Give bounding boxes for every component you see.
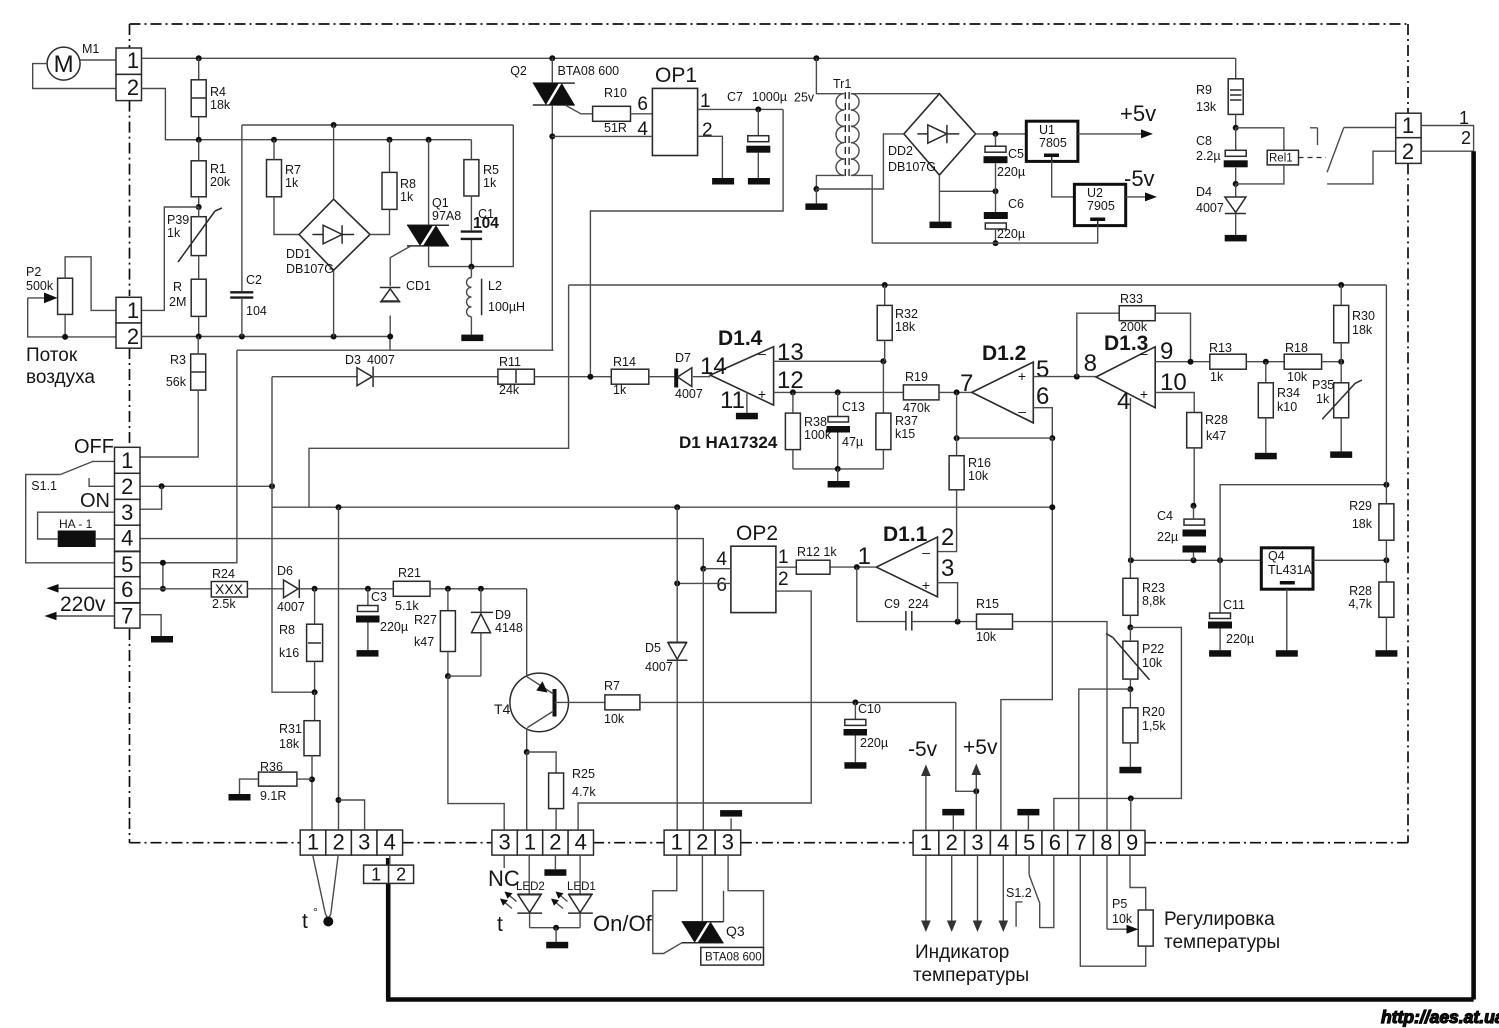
svg-text:D1.4: D1.4	[718, 327, 763, 350]
svg-text:4007: 4007	[675, 387, 703, 401]
wire DD1 top to y125	[333, 125, 335, 199]
svg-text:10k: 10k	[968, 469, 989, 483]
triac Q2 BTA08-600	[551, 58, 553, 83]
svg-text:P5: P5	[1112, 897, 1127, 911]
capacitor C3 220u	[367, 589, 369, 606]
svg-text:C6: C6	[1008, 197, 1024, 211]
svg-text:18k: 18k	[1352, 517, 1373, 531]
gate wire Q2 to R10	[565, 105, 593, 114]
junction T4 emitter / R25	[524, 749, 530, 755]
junction pin8 node	[1074, 374, 1080, 380]
junction R38 top	[790, 389, 796, 395]
junction R8 top	[387, 137, 393, 143]
svg-text:4: 4	[384, 830, 396, 855]
svg-text:R34: R34	[1277, 386, 1300, 400]
svg-text:7: 7	[1074, 830, 1086, 855]
capacitor C6 220u	[995, 191, 997, 212]
voltage reference Q4 TL431A	[1261, 548, 1313, 589]
svg-text:R28: R28	[1205, 413, 1228, 427]
diode D3 4007	[272, 376, 357, 378]
svg-text:4: 4	[575, 830, 587, 855]
svg-text:D1.2: D1.2	[982, 342, 1026, 365]
svg-text:S1.1: S1.1	[31, 479, 57, 493]
thick cable right side down	[1471, 151, 1476, 999]
frame dash-dot border bottom segments	[130, 842, 301, 844]
thermistor probe t	[313, 855, 326, 914]
wire pin12 node	[774, 391, 904, 393]
svg-text:R3: R3	[170, 353, 186, 367]
svg-text:1: 1	[1402, 113, 1414, 138]
svg-text:k10: k10	[1277, 400, 1297, 414]
wire D7 to D1.4	[693, 376, 710, 378]
svg-text:14: 14	[700, 353, 727, 380]
resistor R7 10k	[605, 695, 640, 710]
svg-text:LED2: LED2	[516, 881, 545, 893]
svg-text:2: 2	[946, 830, 958, 855]
optocoupler OP2	[731, 546, 776, 612]
svg-text:OP1: OP1	[655, 64, 697, 87]
svg-text:Q2: Q2	[510, 64, 527, 78]
svg-text:–: –	[922, 544, 930, 560]
svg-text:56k: 56k	[166, 375, 187, 389]
svg-text:4: 4	[121, 526, 133, 551]
wire R19 node down to R16	[956, 392, 958, 455]
wire R11 to R14	[534, 376, 611, 378]
capacitor C4 22u	[1184, 519, 1205, 525]
wire M1 loop to X1 pin2	[33, 64, 116, 89]
junction R27 top	[445, 586, 451, 592]
svg-text:7: 7	[121, 604, 133, 629]
bridge rows 5-6	[162, 563, 164, 589]
resistor R27 k47	[447, 589, 449, 611]
wire row1 to R3	[139, 460, 141, 462]
svg-text:10k: 10k	[976, 630, 997, 644]
wire R3 bottom to row1	[140, 390, 198, 457]
svg-text:1: 1	[121, 448, 133, 473]
arrow -5v from pin1	[925, 771, 927, 831]
svg-text:k16: k16	[279, 646, 299, 660]
wire to R25	[527, 752, 556, 773]
wire jog to pin3	[339, 800, 365, 830]
wire long vertical from feedback node down	[1001, 438, 1052, 830]
frame dash-dot border left segments	[129, 24, 131, 48]
thick cable up to mini connector	[386, 858, 391, 1000]
svg-text:R32: R32	[895, 307, 918, 321]
svg-text:220µ: 220µ	[380, 620, 408, 634]
ground below C10	[844, 762, 866, 769]
svg-text:R19: R19	[905, 370, 928, 384]
svg-text:R15: R15	[976, 597, 999, 611]
svg-text:2: 2	[396, 865, 406, 885]
resistor R36 9.1R	[259, 772, 297, 786]
wire OP2 pin6 to D5 net	[677, 582, 731, 584]
wire 220v arrow row7	[51, 615, 115, 617]
svg-text:D9: D9	[495, 608, 511, 622]
svg-text:47µ: 47µ	[842, 435, 863, 449]
svg-text:C7: C7	[727, 90, 743, 104]
svg-text:5.1k: 5.1k	[395, 599, 419, 613]
junction Q2 vertical at OP1 pin4 wire	[549, 133, 555, 139]
svg-text:C9: C9	[884, 597, 900, 611]
wire bus jog down	[237, 337, 390, 351]
svg-text:D6: D6	[277, 564, 293, 578]
resistor R1	[191, 161, 206, 197]
junction divider	[1383, 557, 1389, 563]
svg-text:P35: P35	[1312, 378, 1334, 392]
ground stub below pin2 mid	[554, 855, 556, 869]
wire riser x272 from D3 wire down to R8 bottom rail	[272, 377, 315, 693]
svg-text:1k: 1k	[167, 226, 181, 240]
junction Q1 top	[426, 137, 432, 143]
arrow airflow onto P2	[28, 297, 52, 299]
svg-text:4007: 4007	[1196, 201, 1224, 215]
svg-text:U2: U2	[1087, 186, 1103, 200]
junction feedback node	[1049, 435, 1055, 441]
connector bottom-left 4-pin	[300, 830, 326, 855]
svg-text:OP2: OP2	[736, 522, 778, 545]
wire CD1 bottom to bus	[389, 316, 391, 337]
svg-text:10k: 10k	[1287, 370, 1308, 384]
junction bus at R2M	[196, 334, 202, 340]
wire U2 bottom to -V rail	[1097, 226, 1099, 244]
transformer Tr1 core	[844, 92, 846, 177]
wire neutral bus y336	[141, 336, 390, 338]
svg-text:220µ: 220µ	[997, 227, 1025, 241]
wire long rail y507	[272, 506, 1054, 508]
svg-text:104: 104	[473, 215, 499, 232]
wire Tr1 primary bottom to ground	[816, 175, 844, 189]
wire P2 top to X2 pin1	[65, 257, 116, 311]
svg-text:4,7k: 4,7k	[1348, 597, 1372, 611]
wire U1 output +5v	[1078, 133, 1144, 135]
svg-text:BTA08 600: BTA08 600	[705, 952, 762, 964]
resistor R28 k47	[1187, 413, 1202, 448]
svg-text:2M: 2M	[169, 295, 186, 309]
svg-text:2: 2	[127, 324, 139, 349]
relay contact	[1310, 127, 1318, 129]
wire U1 ground pin to U2 input	[1052, 161, 1075, 197]
wire R38/C13/R37 common to ground	[793, 468, 884, 470]
resistor R13 1k	[1210, 354, 1247, 369]
svg-text:2: 2	[778, 569, 789, 590]
svg-text:-5v: -5v	[1124, 166, 1155, 191]
wire R13 to R18	[1246, 361, 1284, 363]
resistor R14 1k	[611, 369, 649, 384]
wire OP2 pin4	[703, 568, 731, 570]
svg-text:M: M	[54, 51, 74, 78]
svg-text:3: 3	[941, 555, 954, 582]
svg-text:2: 2	[1461, 128, 1471, 148]
svg-text:18k: 18k	[210, 98, 231, 112]
svg-text:R29: R29	[1349, 499, 1372, 513]
resistor R7	[267, 160, 282, 197]
svg-text:3: 3	[498, 830, 510, 855]
svg-text:R20: R20	[1142, 705, 1165, 719]
svg-text:104: 104	[246, 304, 267, 318]
ground below R20	[1119, 767, 1141, 774]
junction bus at C2	[239, 334, 245, 340]
svg-text:D7: D7	[675, 351, 691, 365]
svg-text:ON: ON	[80, 490, 110, 512]
svg-text:S1.2: S1.2	[1006, 886, 1032, 900]
resistor R12 1k	[796, 560, 830, 574]
junction C1 bottom	[468, 264, 474, 270]
svg-text:24k: 24k	[499, 383, 520, 397]
wire L2 to ground	[470, 317, 472, 335]
svg-text:воздуха: воздуха	[26, 367, 95, 388]
capacitor C7 1000u 25v	[757, 109, 759, 135]
svg-text:TL431A: TL431A	[1268, 563, 1312, 577]
ground below C11	[1209, 650, 1231, 657]
junction y507 at x338 riser	[336, 504, 342, 510]
svg-text:R25: R25	[572, 767, 595, 781]
resistor R33 200k	[1077, 313, 1119, 376]
svg-text:T4: T4	[494, 701, 511, 717]
junction C13 top	[835, 389, 841, 395]
wire row2 node	[140, 485, 272, 487]
svg-text:D1.1: D1.1	[883, 523, 928, 546]
svg-text:R21: R21	[398, 566, 421, 580]
junction C4 bottom	[1191, 557, 1197, 563]
svg-text:7: 7	[960, 370, 973, 397]
wire D1.1 pin3	[938, 583, 958, 622]
resistor R8 k16	[314, 589, 316, 624]
svg-text:k47: k47	[1206, 429, 1226, 443]
ground below R34	[1255, 453, 1277, 460]
resistor R10 51R	[593, 106, 631, 121]
P5 wiper from pin8	[1106, 855, 1108, 929]
svg-text:224: 224	[908, 597, 929, 611]
svg-text:D3: D3	[345, 353, 361, 367]
svg-text:2.2µ: 2.2µ	[1196, 149, 1221, 163]
wire R10 to OP1 pin6	[631, 113, 653, 115]
svg-text:1,5k: 1,5k	[1142, 719, 1166, 733]
svg-text:D4: D4	[1196, 185, 1212, 199]
resistor R19 470k	[903, 385, 939, 400]
svg-text:L2: L2	[488, 279, 502, 293]
capacitor C10 220u	[854, 702, 856, 719]
svg-text:1: 1	[778, 547, 789, 568]
resistor R11 24k	[498, 369, 535, 384]
svg-text:+: +	[758, 386, 766, 402]
svg-text:R8: R8	[400, 177, 416, 191]
resistor R24 2.5k boxed	[211, 582, 247, 598]
arrow +5v up	[975, 770, 977, 792]
wire C7 node down to R11/R14 node	[590, 109, 783, 376]
wire DD1 bottom to bus	[333, 270, 335, 336]
wire DD2 left corner to ground node	[816, 134, 904, 189]
junction y125 at DD1 top	[331, 122, 337, 128]
resistor R28 4.7k lower	[1385, 560, 1387, 582]
resistor R18 10k	[1284, 354, 1321, 369]
wire riser to pin2	[338, 507, 340, 830]
triac Q3 BTA08-600	[682, 921, 724, 923]
trimmer P35 1k	[1340, 362, 1342, 383]
connector bottom (1 2 3) for Q3	[664, 830, 690, 855]
junction R11/R14/C7net	[587, 374, 593, 380]
svg-text:°: °	[313, 905, 318, 919]
junction R34 top	[1263, 359, 1269, 365]
svg-text:7805: 7805	[1039, 136, 1067, 150]
junction row2 wire at x272 riser	[269, 483, 275, 489]
junction C3 top	[365, 586, 371, 592]
resistor R5	[464, 160, 479, 196]
wire D1.2 pin6 feedback	[1033, 408, 1052, 438]
svg-text:4007: 4007	[277, 600, 305, 614]
wire D6 to R21	[299, 588, 393, 590]
ground at R36	[229, 794, 251, 801]
diode D5 4007	[676, 507, 678, 642]
svg-text:13k: 13k	[1196, 100, 1217, 114]
svg-text:Регулировка: Регулировка	[1164, 909, 1275, 930]
svg-text:500k: 500k	[26, 279, 54, 293]
svg-text:5: 5	[121, 552, 133, 577]
capacitor C13 47u	[837, 392, 839, 416]
svg-text:Rel1: Rel1	[1269, 153, 1293, 165]
junction pin9/R33	[1188, 359, 1194, 365]
ground below R28	[1375, 650, 1397, 657]
svg-text:10k: 10k	[1142, 656, 1163, 670]
resistor R16 10k	[949, 456, 964, 490]
wire P22 junction to connector pin7	[1079, 689, 1131, 830]
svg-text:t: t	[497, 913, 503, 936]
wire bus to connector row5	[140, 350, 237, 563]
junction D9/R27 bottom node	[445, 673, 451, 679]
svg-text:R38: R38	[804, 415, 827, 429]
inductor L2 100uH	[470, 267, 472, 278]
svg-text:220v: 220v	[60, 593, 106, 616]
bridge rectifier DD2 DB107G	[904, 94, 976, 175]
svg-text:3: 3	[722, 830, 734, 855]
resistor R32 18k	[884, 285, 886, 305]
svg-text:R14: R14	[613, 355, 636, 369]
svg-text:Q1: Q1	[432, 196, 449, 210]
svg-text:+: +	[1018, 368, 1026, 384]
svg-text:C4: C4	[1157, 509, 1173, 523]
svg-text:9: 9	[1126, 830, 1138, 855]
wire D1.3 pin4 stem down	[1129, 398, 1131, 560]
svg-text:–: –	[1140, 345, 1148, 361]
svg-text:Tr1: Tr1	[833, 77, 851, 91]
junction R36	[309, 776, 315, 782]
junction rail285 at R32	[882, 282, 888, 288]
svg-text:1: 1	[127, 48, 139, 73]
svg-text:R31: R31	[279, 722, 302, 736]
ground above pin3 Q3conn	[720, 810, 742, 817]
svg-text:R12 1k: R12 1k	[797, 545, 837, 559]
connector output 2-pin (heater feed)	[1396, 113, 1421, 138]
junction top rail at Tr1	[813, 55, 819, 61]
junction P22 bottom	[1127, 686, 1133, 692]
wire OP2 pin1 to R12	[776, 566, 796, 568]
svg-text:R36: R36	[260, 760, 283, 774]
svg-text:R24: R24	[212, 567, 235, 581]
wire D1.3 pin10 to R28	[1155, 393, 1194, 413]
ground below C3	[357, 650, 379, 657]
wire pin2 to Q3	[701, 855, 703, 922]
opamp D1.1	[876, 537, 937, 597]
svg-text:Индикатор: Индикатор	[915, 942, 1009, 963]
svg-text:температуры: температуры	[1164, 932, 1280, 953]
junction OP2 pin4 node	[700, 566, 706, 572]
resistor R21 5.1k	[393, 581, 430, 596]
wire row2 to row3	[140, 486, 162, 509]
svg-text:R5: R5	[483, 163, 499, 177]
junction R7 top	[271, 137, 277, 143]
junction D9 top	[478, 586, 484, 592]
svg-text:6: 6	[1036, 383, 1049, 410]
thick cable bottom	[386, 997, 1474, 1002]
wire U-link y448	[309, 285, 569, 507]
wire OP2 pin2 down to connector pin4	[578, 591, 811, 830]
switch S1.1	[92, 460, 116, 462]
svg-text:Поток: Поток	[26, 345, 78, 366]
frame dash-dot border top	[130, 23, 1409, 25]
svg-text:P2: P2	[26, 265, 41, 279]
indicator arrows below pins 1-4	[925, 855, 927, 925]
svg-text:R16: R16	[968, 456, 991, 470]
junction row2	[159, 483, 165, 489]
capacitor C9 224	[905, 611, 907, 631]
rail to Q4 area y560	[1131, 559, 1261, 561]
resistor R8 1k	[382, 172, 397, 209]
svg-text:6: 6	[1049, 830, 1061, 855]
svg-text:t: t	[302, 910, 308, 933]
wire R7 to +5v node	[640, 701, 956, 703]
svg-text:18k: 18k	[279, 737, 300, 751]
junction y507 at D5	[674, 504, 680, 510]
svg-text:1k: 1k	[483, 176, 497, 190]
svg-text:12: 12	[777, 367, 804, 394]
svg-text:18k: 18k	[895, 320, 916, 334]
svg-text:R33: R33	[1120, 292, 1143, 306]
svg-text:R1: R1	[210, 162, 226, 176]
resistor R23 8.8k	[1129, 560, 1131, 578]
LED2 emission arrows	[507, 894, 517, 902]
svg-text:8: 8	[1084, 350, 1097, 377]
svg-text:1000µ: 1000µ	[752, 90, 787, 104]
wire OP2 pin4 node down to connector	[702, 569, 704, 830]
wire +5v jog to connector pin3	[956, 702, 977, 791]
svg-text:3: 3	[121, 500, 133, 525]
junction C11 top	[1217, 557, 1223, 563]
svg-text:C3: C3	[371, 590, 387, 604]
junction C8 bottom / D4 / Rel1	[1233, 181, 1239, 187]
svg-text:18k: 18k	[1352, 323, 1373, 337]
diode D7 4007	[649, 376, 676, 378]
svg-text:C8: C8	[1196, 134, 1212, 148]
ground below P35	[1330, 451, 1352, 458]
wire rail y125	[242, 124, 513, 126]
svg-text:http://aes.at.ua: http://aes.at.ua	[1381, 1007, 1499, 1027]
junction R28/C4/Q4link	[1191, 503, 1197, 509]
wire R15 to bottom connector pin8	[1013, 622, 1108, 831]
ground below LEDs	[546, 942, 568, 949]
wire U2 output -5v	[1126, 196, 1148, 198]
ground Tr1	[815, 189, 817, 203]
junction pin1 node	[854, 564, 860, 570]
junction rail285 at R30	[1338, 282, 1344, 288]
svg-text:R8: R8	[279, 623, 295, 637]
wire connector pin1 external	[1421, 126, 1474, 152]
svg-text:4.7k: 4.7k	[572, 785, 596, 799]
svg-text:+5v: +5v	[963, 736, 998, 759]
svg-text:HA - 1: HA - 1	[59, 517, 93, 531]
diac CD1	[380, 287, 401, 289]
junction C6 bottom on -V rail	[993, 240, 999, 246]
svg-text:C13: C13	[842, 400, 865, 414]
svg-text:2: 2	[702, 120, 713, 141]
